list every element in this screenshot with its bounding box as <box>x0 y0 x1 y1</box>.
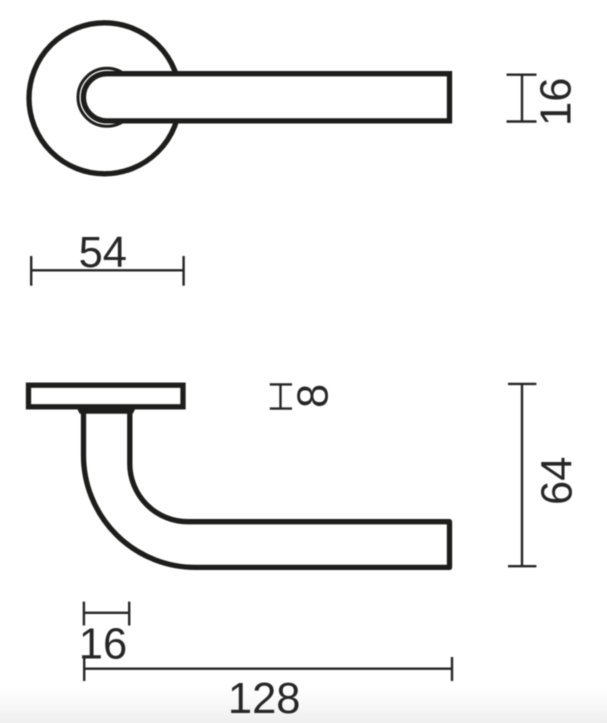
dimension 128 (overall length) <box>84 657 452 681</box>
svg-text:128: 128 <box>228 675 301 723</box>
svg-text:8: 8 <box>289 384 337 408</box>
svg-text:54: 54 <box>79 229 127 277</box>
subtle bottom fade <box>0 689 607 723</box>
plate rectangle (side view) <box>29 385 184 407</box>
rose circle (front view) <box>29 23 180 174</box>
lever bar (front view) <box>83 74 449 121</box>
dimension 64 (height, right) <box>508 384 536 566</box>
svg-text:16: 16 <box>79 620 127 668</box>
collar under plate (side view) <box>75 404 138 414</box>
dimension 8 (plate thickness) <box>270 384 292 408</box>
svg-text:16: 16 <box>533 78 581 126</box>
neck ring around lever cap <box>78 68 136 126</box>
svg-text:64: 64 <box>533 457 581 505</box>
dimension 54 (rose diameter) <box>31 256 183 286</box>
tube / lever (side view) <box>84 410 450 567</box>
dimension 16 (tube width, bottom left) <box>84 602 129 626</box>
dimension 16 (lever thickness, top right) <box>507 75 537 122</box>
